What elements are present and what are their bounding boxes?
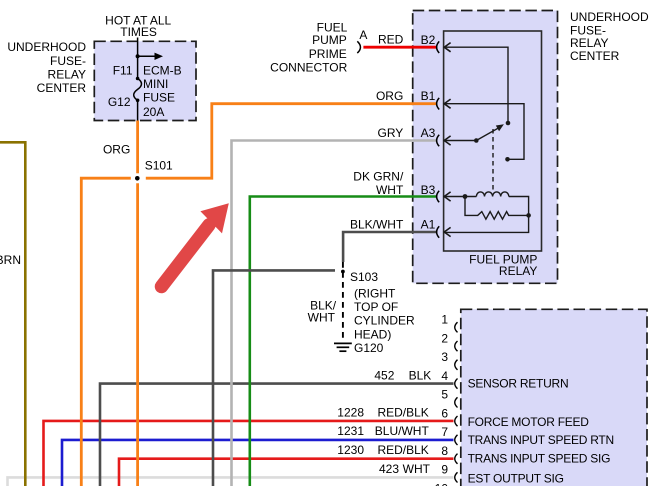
svg-text:PRIME: PRIME [309,47,347,61]
svg-text:BRN: BRN [0,253,21,267]
resistor (parallel with coil) [465,197,529,220]
splice S101 [135,176,140,181]
svg-text:A1: A1 [421,218,436,232]
bottom connector pin 3 [455,360,458,370]
svg-text:10: 10 [435,482,449,486]
wire 1230 RED/BLK to pin 8 [119,459,454,486]
svg-text:4: 4 [441,369,448,383]
svg-text:8: 8 [441,444,448,458]
feed tap arrow [138,55,155,57]
svg-text:3: 3 [441,350,448,364]
svg-text:5: 5 [441,388,448,402]
connector half (fuel pump prime connector pin A) [357,41,360,53]
bottom connector pin 1 [455,322,458,332]
svg-text:CENTER: CENTER [570,49,620,63]
wire 452 BLK to pin 4 [100,384,454,486]
wire ORG fuse to S101 and down [136,121,139,174]
wire ORG S101 left branch [81,178,131,486]
bottom connector pin 4 [455,379,458,389]
bottom connector pin 9 [455,472,458,482]
svg-text:ORG: ORG [376,89,403,103]
svg-text:WHT: WHT [376,183,404,197]
svg-text:TRANS INPUT SPEED SIG: TRANS INPUT SPEED SIG [468,452,611,466]
svg-text:9: 9 [441,463,448,477]
svg-text:ORG: ORG [103,143,130,157]
svg-text:G12: G12 [108,95,131,109]
wire BLK/WHT from relay pin A1 to S103 [343,232,436,262]
svg-text:B2: B2 [421,33,436,47]
relay pin A1 connector half [437,226,440,238]
svg-text:SENSOR RETURN: SENSOR RETURN [468,377,569,391]
svg-text:1: 1 [441,313,448,327]
svg-text:RED/BLK: RED/BLK [377,405,428,419]
svg-text:20A: 20A [143,105,164,119]
svg-text:S101: S101 [145,159,173,173]
svg-text:DK GRN/: DK GRN/ [353,170,404,184]
svg-text:TIMES: TIMES [120,25,157,39]
svg-text:PUMP: PUMP [312,33,347,47]
wire DK GRN/WHT from relay pin B3 [250,197,437,486]
svg-text:UNDERHOOD: UNDERHOOD [570,10,649,24]
bottom connector pin 6 [455,416,458,426]
fuel pump relay inner box [444,31,542,251]
svg-text:1231: 1231 [337,424,364,438]
wire 423 WHT to pin 9 [8,477,454,486]
bottom connector pin 2 [455,341,458,351]
svg-text:FUSE: FUSE [143,90,175,104]
svg-text:BLK/WHT: BLK/WHT [350,218,404,232]
svg-text:7: 7 [441,425,448,439]
wire 1228 RED/BLK to pin 6 [44,421,454,486]
svg-text:B3: B3 [421,183,436,197]
relay internal: B2 lead to switch contact [444,47,508,123]
wire ORG S101 to relay pin B1 [146,104,437,179]
svg-text:423: 423 [379,462,399,476]
bottom connector pin 5 [455,397,458,407]
svg-text:EST OUTPUT SIG: EST OUTPUT SIG [468,471,564,485]
svg-text:HEAD): HEAD) [354,327,391,341]
fuel pump relay outer dashed box [413,11,558,284]
svg-text:FUSE-: FUSE- [50,54,86,68]
svg-text:(RIGHT: (RIGHT [354,287,396,301]
svg-text:CONNECTOR: CONNECTOR [270,60,347,74]
svg-text:UNDERHOOD: UNDERHOOD [7,40,86,54]
svg-text:RED/BLK: RED/BLK [377,443,428,457]
svg-text:WHT: WHT [308,311,336,325]
switch contact dot (NC) [505,157,510,162]
svg-text:2: 2 [441,331,448,345]
svg-text:RELAY: RELAY [499,264,537,278]
relay coil [444,192,528,216]
relay internal: A3 lead [444,140,476,142]
svg-text:A: A [359,28,367,42]
svg-text:MINI: MINI [143,77,168,91]
relay pin B1 connector half [437,98,440,110]
underhood fuse-relay center box (fuse block, dashed) [94,41,196,120]
svg-text:FORCE MOTOR FEED: FORCE MOTOR FEED [468,415,590,429]
svg-text:ECM-B: ECM-B [143,64,182,78]
svg-text:CENTER: CENTER [37,81,87,95]
annotation red arrow [162,225,210,287]
svg-text:CYLINDER: CYLINDER [354,314,415,328]
svg-text:TRANS INPUT SPEED RTN: TRANS INPUT SPEED RTN [468,433,614,447]
svg-text:A3: A3 [421,126,436,140]
switch pivot dot [474,138,479,143]
fuse block feed line [137,38,139,79]
relay pin B3 connector half [437,191,440,203]
ground G120 [334,343,352,351]
svg-text:WHT: WHT [403,462,431,476]
switch blade [476,127,499,140]
svg-text:G120: G120 [354,341,384,355]
svg-text:F11: F11 [113,64,133,78]
relay pin B2 connector half [437,41,440,53]
relay internal: A1 lead [444,215,528,232]
svg-text:RELAY: RELAY [570,36,608,50]
feed tap junction [136,54,140,58]
svg-text:RELAY: RELAY [48,67,86,81]
wire 1231 BLU/WHT to pin 7 [62,440,454,486]
fuse F11 ECM-B MINI FUSE 20A [136,77,140,81]
switch contact dot (NO) [506,121,511,126]
bottom connector pin 7 [455,435,458,445]
wire GRY from relay pin A3 [232,141,437,486]
splice S103 [341,270,345,274]
svg-text:1228: 1228 [337,405,364,419]
svg-text:BLK: BLK [409,369,432,383]
svg-text:TOP OF: TOP OF [354,300,398,314]
bottom connector pin 8 [455,454,458,464]
resistor node dot [526,213,531,218]
svg-text:452: 452 [374,369,394,383]
wire BLK/WHT from S103 to left and down [213,270,335,486]
relay internal: B1 lead to lower contact [444,104,524,160]
switch actuation dashed link [492,129,494,192]
svg-text:BLU/WHT: BLU/WHT [375,424,430,438]
wire BRN (left edge) [0,142,25,486]
svg-text:RED: RED [378,33,404,47]
svg-text:1230: 1230 [337,443,364,457]
coil node dot [463,194,468,199]
bottom connector dashed box (PCM connector) [461,309,647,486]
wire RED fuel pump prime connector to relay pin B2 [363,46,436,49]
svg-text:S103: S103 [350,270,378,284]
dashed lead S103 to G120 [342,262,344,341]
svg-text:GRY: GRY [378,126,404,140]
svg-text:B1: B1 [421,89,436,103]
svg-text:6: 6 [441,406,448,420]
relay pin A3 connector half [437,135,440,147]
